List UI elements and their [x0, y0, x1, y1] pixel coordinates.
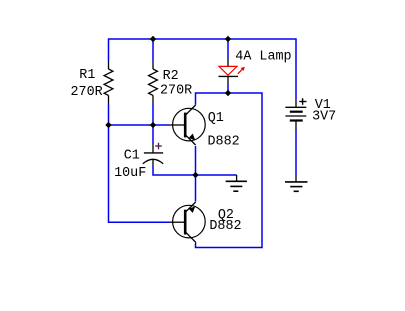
svg-text:D882: D882 — [208, 134, 240, 149]
resistor R1 — [104, 61, 113, 104]
wire lamp anode — [227, 39, 229, 60]
svg-text:C1: C1 — [124, 149, 140, 164]
node dot base R1 — [105, 122, 111, 128]
svg-text:10uF: 10uF — [114, 166, 146, 181]
svg-text:Q1: Q1 — [208, 111, 224, 126]
ground mid — [226, 175, 247, 191]
svg-text:R2: R2 — [163, 69, 179, 84]
battery V1 plus sign — [299, 98, 306, 105]
node dot top R2 — [150, 36, 156, 42]
svg-text:4A Lamp: 4A Lamp — [235, 49, 291, 64]
svg-text:3V7: 3V7 — [312, 110, 336, 125]
ground battery — [285, 175, 308, 191]
lamp LED leads — [227, 60, 229, 84]
wire Q2 emitter up — [195, 175, 197, 202]
svg-text:R1: R1 — [79, 68, 95, 83]
wire R1 bottom to base node — [108, 104, 110, 125]
wire battery minus down — [295, 129, 297, 175]
transistor Q2 collector lead black — [195, 242, 197, 244]
wire Q1 emitter down — [195, 146, 197, 175]
transistor Q2 — [169, 202, 205, 242]
node dot top lamp — [225, 36, 231, 42]
wire right loop Q1 collector to Q2 collector — [196, 93, 263, 248]
capacitor C1 top plate — [144, 152, 163, 154]
capacitor C1 curved plate — [143, 159, 163, 163]
node dot emitter junction — [192, 172, 198, 178]
transistor Q1 — [169, 105, 206, 145]
lamp LED cathode bar — [219, 75, 239, 77]
wire base node to Q1 base — [109, 124, 169, 126]
svg-text:270R: 270R — [71, 85, 103, 100]
capacitor C1 plus sign — [155, 143, 162, 150]
wire lamp cathode to node — [227, 83, 229, 93]
capacitor C1 bottom lead — [152, 160, 154, 166]
svg-text:270R: 270R — [160, 83, 192, 98]
node dot lamp cathode — [225, 90, 231, 96]
svg-text:D882: D882 — [209, 219, 241, 234]
lamp LED arrow — [238, 69, 243, 74]
battery V1 — [285, 99, 306, 129]
wire R2 bottom to C1 — [152, 104, 154, 144]
wire top rail V+ — [109, 39, 297, 99]
lamp LED triangle — [219, 66, 237, 75]
resistor R2 — [149, 61, 158, 104]
wire R2 top — [152, 39, 154, 61]
capacitor C1 top lead — [152, 144, 154, 153]
node dot base R2 — [150, 122, 156, 128]
wire C1 bottom to ground node — [153, 166, 237, 175]
wire left drop to Q2 base — [109, 125, 170, 222]
